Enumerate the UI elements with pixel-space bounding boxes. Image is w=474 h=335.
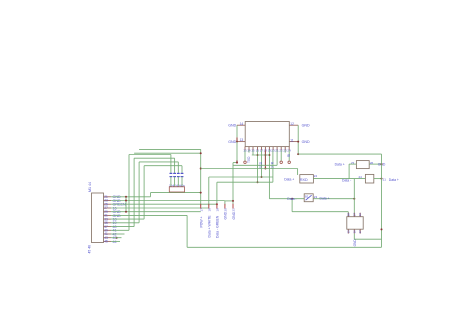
- junction p4 y182.2: [257, 181, 259, 183]
- connector M1 pin 31: [104, 214, 112, 216]
- USB connector J1 body: [347, 217, 363, 230]
- wire pin row 11 horizontal: [111, 233, 125, 235]
- pin 19 tick: [216, 204, 218, 209]
- junction rail y229.4: [381, 228, 383, 230]
- IC bottom pin x281.2: [280, 147, 282, 151]
- wire pin3 stub: [252, 150, 254, 155]
- wire maroon GND drop x237: [236, 161, 238, 163]
- junction p7 y155: [268, 154, 270, 156]
- junction p6 y168.5: [264, 168, 266, 170]
- wire GND drop x237 upper: [236, 142, 238, 161]
- IC bottom pin x273.1: [272, 147, 274, 151]
- wire pin row 13 horizontal: [111, 240, 120, 242]
- wire pin row 8 horizontal: [111, 222, 139, 224]
- wire y198.7 bottom data row: [269, 198, 354, 200]
- wire pin row 10 horizontal: [111, 229, 129, 231]
- USB J1 top pin 26: [359, 213, 361, 217]
- connector M1 pin 21: [104, 196, 112, 198]
- capacitor C2: [173, 173, 176, 176]
- connector M1 pin 45: [104, 240, 112, 242]
- junction pin43 wire: [116, 237, 118, 239]
- svg-text:GND: GND: [228, 140, 236, 144]
- svg-text:Data - GREEN: Data - GREEN: [216, 215, 220, 238]
- wire riser x139.1: [138, 162, 140, 223]
- junction rail y164.1: [381, 163, 383, 165]
- svg-text:GND: GND: [228, 124, 236, 128]
- junction POW+ y153.2: [200, 152, 202, 154]
- wire jog y162.6: [233, 162, 237, 164]
- connector M1 pin 29: [104, 211, 112, 213]
- wire pin1 stub: [244, 150, 246, 161]
- wire pin row 9 horizontal: [111, 226, 134, 228]
- svg-text:21: 21: [232, 208, 236, 212]
- svg-text:GND: GND: [302, 124, 310, 128]
- IC pin 13: [237, 141, 245, 143]
- wire FB3 to GND rail: [369, 163, 381, 165]
- junction jog x237: [236, 162, 238, 164]
- svg-text:GND: GND: [224, 211, 228, 219]
- wire pin row 7 horizontal: [111, 218, 144, 220]
- junction y198.7 x354: [353, 198, 355, 200]
- wire y211.7 to USB pin: [292, 211, 348, 213]
- USB J1 bottom pin 17: [359, 229, 361, 233]
- junction GND right y154.1: [297, 153, 299, 155]
- connector M1 pin 23: [104, 200, 112, 202]
- connector M1 pin 37: [104, 226, 112, 228]
- wire GND bus vertical: [125, 197, 127, 212]
- wire bundle level y161.9: [139, 161, 178, 163]
- wire second line y153.2: [134, 152, 201, 154]
- wire top line y149.4: [139, 148, 201, 150]
- wire pin7 drop to y198.7: [268, 150, 270, 199]
- wire bundle level y158.2: [134, 157, 175, 159]
- open pin circle p10: [280, 161, 283, 164]
- wire bottom rail y247.3: [187, 246, 381, 248]
- svg-text:23: 23: [314, 195, 318, 199]
- wire net row 3: [111, 203, 217, 205]
- wire drop x292.1: [291, 199, 293, 212]
- svg-text:27: 27: [352, 213, 356, 217]
- IC bottom pin x277.1: [276, 147, 278, 151]
- pin 20 tick: [224, 204, 226, 209]
- wire pin4 drop to y182.2: [257, 150, 259, 182]
- svg-text:17: 17: [199, 208, 203, 212]
- wire cap drop x178.3: [177, 162, 179, 174]
- wire pin2 stub: [248, 150, 250, 152]
- svg-text:M1 44: M1 44: [88, 182, 92, 192]
- capacitor group frame: [169, 187, 184, 192]
- open pin circle p1: [244, 161, 247, 164]
- wire y155 link: [252, 154, 270, 156]
- wire drop x348.3 into USB: [347, 212, 349, 217]
- junction p5 y177: [261, 176, 263, 178]
- wire right rail x381.5: [381, 154, 383, 247]
- svg-text:POW +: POW +: [200, 216, 204, 227]
- wire y201 link stub20-21: [225, 200, 233, 202]
- junction POW+ y168.5: [200, 168, 202, 170]
- wire FB4 out to rail: [374, 178, 382, 180]
- svg-text:24: 24: [359, 175, 363, 179]
- IC bottom pin x285.2: [284, 147, 286, 151]
- svg-text:Data +: Data +: [335, 162, 345, 166]
- wire cap C2 lower lead: [174, 177, 176, 187]
- IC pin 11: [289, 141, 298, 143]
- wire net row 5: [111, 211, 201, 213]
- wire cap drop x170.9: [170, 155, 172, 174]
- svg-text:GND: GND: [232, 211, 236, 219]
- pin 18 tick: [208, 204, 210, 209]
- svg-text:12: 12: [290, 122, 294, 126]
- svg-text:GND: GND: [353, 239, 357, 247]
- svg-text:17: 17: [358, 230, 362, 234]
- junction GND bus pin23: [125, 200, 127, 202]
- ferrite bead FB3: [356, 161, 369, 169]
- IC bottom pin x245.0: [244, 147, 246, 151]
- junction GND bus pin21: [125, 196, 127, 198]
- junction p6 y155: [264, 154, 266, 156]
- IC pin 14: [237, 124, 245, 126]
- junction rail y178.6: [381, 178, 383, 180]
- wire y182.2 Data- green link: [217, 181, 273, 183]
- connector M1 pin 33: [104, 218, 112, 220]
- IC bottom pin x257.5: [257, 147, 259, 151]
- wire bundle level y154.5: [129, 154, 171, 156]
- capacitor C3: [177, 173, 180, 176]
- svg-text:26: 26: [358, 213, 362, 217]
- USB J1 bottom pin 16: [353, 229, 355, 233]
- open pin circle p12: [288, 161, 291, 164]
- junction GND bus pin29: [125, 211, 127, 213]
- svg-text:RXD: RXD: [300, 178, 308, 182]
- bead FB2 marking: [306, 195, 312, 200]
- svg-text:18: 18: [207, 208, 211, 212]
- connector M1 pin 27: [104, 207, 112, 209]
- wire net row 6: [111, 214, 187, 216]
- wire riser row1 x150.5: [150, 193, 152, 197]
- connector M1 body: [92, 193, 104, 243]
- junction Data-GREEN row25: [216, 203, 218, 205]
- svg-text:28: 28: [346, 213, 350, 217]
- svg-text:GND: GND: [302, 140, 310, 144]
- svg-text:B2: B2: [305, 195, 309, 199]
- svg-text:13: 13: [240, 138, 244, 142]
- junction GND right pin11: [297, 141, 299, 143]
- wire POW+ vertical x200.7: [200, 149, 202, 205]
- wire pin10 stub: [280, 150, 282, 161]
- wire GND left vertical: [236, 125, 238, 137]
- wire GND stub x224.9: [224, 201, 226, 206]
- IC bottom pin x261.5: [261, 147, 263, 151]
- junction y198.7 x292: [291, 198, 293, 200]
- wire riser x129.0: [128, 155, 130, 231]
- IC bottom pin x253.0: [252, 147, 254, 151]
- capacitor C1: [170, 173, 173, 176]
- svg-text:20: 20: [224, 208, 228, 212]
- wire y177 Data+ white link: [209, 176, 273, 178]
- ferrite bead FB2: [304, 194, 313, 202]
- junction POW+ y192.6: [200, 192, 202, 194]
- svg-text:19: 19: [216, 208, 220, 212]
- svg-text:Data +: Data +: [320, 197, 330, 201]
- wire red segment above pin13 junction: [236, 137, 238, 141]
- wire cap drop x182.0: [181, 166, 183, 174]
- junction p4 y155: [257, 154, 259, 156]
- svg-text:Data -: Data -: [287, 197, 296, 201]
- IC U1 body: [245, 122, 289, 147]
- wire y165.3 link: [233, 164, 277, 166]
- wire long y168.5 POW net: [201, 168, 298, 170]
- USB J1 top pin 27: [353, 213, 355, 217]
- wire y239.2 to rail: [354, 238, 381, 240]
- wire GND rail top y154.1: [298, 153, 381, 155]
- svg-text:Data -: Data -: [342, 178, 351, 182]
- svg-text:21: 21: [383, 177, 387, 181]
- USB J1 top pin 28: [347, 213, 349, 217]
- wire riser x144.1: [143, 166, 145, 219]
- junction GND x233: [232, 200, 234, 202]
- wire pin8 drop to y182.2: [272, 150, 274, 182]
- wire drop x354.3 to USB: [353, 179, 355, 217]
- wire net row 4: [111, 207, 209, 209]
- junction GND left: [236, 141, 238, 143]
- svg-text:Data +: Data +: [389, 178, 399, 182]
- wire bundle level y165.7: [144, 165, 182, 167]
- wire cap drop x174.6: [174, 158, 176, 173]
- connector M1 pin 39: [104, 229, 112, 231]
- wire pin5 drop to y177: [261, 150, 263, 177]
- wire USB GND down: [353, 234, 355, 240]
- wire net row 2: [111, 200, 225, 202]
- IC bottom pin x249.0: [248, 147, 250, 151]
- svg-text:Data + WHITE: Data + WHITE: [208, 215, 212, 238]
- svg-text:RXD: RXD: [259, 161, 263, 168]
- wire Data-GREEN vertical x216.9: [216, 182, 218, 204]
- wire maroon pin6 drop: [264, 150, 266, 168]
- wire y192.6 link: [151, 192, 202, 194]
- svg-text:16: 16: [352, 230, 356, 234]
- capacitor C4: [181, 173, 184, 176]
- IC pin 12: [289, 124, 298, 126]
- ferrite bead FB1: [300, 175, 314, 183]
- IC bottom pin x269.4: [268, 147, 270, 151]
- svg-text:24: 24: [314, 174, 318, 178]
- svg-text:26: 26: [370, 161, 374, 165]
- wire riser x134.1: [133, 158, 135, 226]
- connector M1 pin 43: [104, 237, 112, 239]
- svg-text:11: 11: [290, 138, 294, 142]
- pin 17 tick: [200, 204, 202, 209]
- connector M1 pin 25: [104, 203, 112, 205]
- wire drop x297.6 into bead: [297, 169, 299, 176]
- wire pin12 stub: [288, 150, 290, 161]
- connector M1 pin 41: [104, 233, 112, 235]
- svg-text:Data +: Data +: [284, 177, 294, 181]
- IC bottom pin x265.4: [264, 147, 266, 151]
- wire cap C4 lower lead: [181, 177, 183, 187]
- wire net row 1: [111, 196, 151, 198]
- wire left rail x187.1: [186, 215, 188, 247]
- svg-text:TXD: TXD: [247, 156, 251, 163]
- IC bottom pin x289.2: [288, 147, 290, 151]
- ferrite bead FB4: [365, 174, 373, 183]
- svg-text:45: 45: [104, 240, 108, 244]
- wire cap C1 lower lead: [170, 177, 172, 187]
- wire GND stub x233.0: [232, 163, 234, 206]
- svg-text:45 46: 45 46: [87, 245, 91, 254]
- wire pin9 drop to y165.3: [276, 150, 278, 165]
- wire y178.6 mid row: [313, 178, 365, 180]
- pin 21 tick: [232, 204, 234, 209]
- wire pin row 12 horizontal: [111, 237, 122, 239]
- svg-text:15: 15: [346, 230, 350, 234]
- wire Data+WHITE vertical x208.8: [208, 177, 210, 206]
- connector M1 pin 35: [104, 222, 112, 224]
- wire drop x349.1: [348, 164, 350, 179]
- USB J1 bottom pin 15: [347, 229, 349, 233]
- svg-text:14: 14: [240, 122, 244, 126]
- wire pin11 stub: [284, 150, 286, 152]
- svg-text:RI: RI: [287, 154, 291, 157]
- wire into FB3: [349, 163, 356, 165]
- wire GND right vertical x298.2: [297, 125, 299, 154]
- wire cap C3 lower lead: [177, 177, 179, 187]
